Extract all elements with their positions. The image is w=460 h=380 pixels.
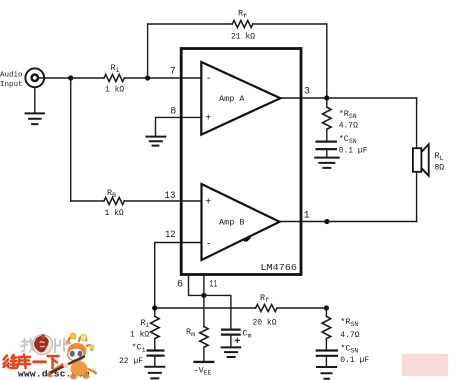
svg-text:8: 8 [170,107,176,118]
ground jack [25,113,45,124]
svg-text:*RSN: *RSN [339,109,357,120]
wire speaker right bottom [416,172,418,222]
svg-text:1 kΩ: 1 kΩ [130,331,149,340]
svg-text:-VEE: -VEE [194,366,212,377]
junction node fb right [324,305,329,310]
ground snubber1 [315,158,339,168]
op-amp U1A triangle [201,62,280,135]
ground Cm [222,347,241,357]
svg-text:13: 13 [165,191,176,202]
wire pin6 [189,276,204,296]
wire audio input line [38,77,201,79]
wire speaker right top [416,98,418,148]
svg-text:4.7Ω: 4.7Ω [339,122,358,131]
wire snubber1 [326,98,328,157]
wire pin1 output [280,221,417,223]
ground Ci [145,367,164,379]
capacitor CSN1 plates [317,142,336,150]
svg-text:22 µF: 22 µF [119,357,143,366]
wire jack stem [34,88,36,112]
resistor RSN2 4.7 [322,316,331,338]
svg-text:+: + [205,198,211,209]
svg-text:Amp A: Amp A [219,94,245,104]
junction node fb left [152,305,157,310]
svg-text:1 kΩ: 1 kΩ [105,86,124,95]
watermark red text xia [48,356,59,368]
capacitor CSN2 plates [317,351,337,356]
svg-text:4.7Ω: 4.7Ω [340,331,359,340]
svg-text:21 kΩ: 21 kΩ [231,33,255,42]
watermark char pian gray [55,339,67,353]
speaker RL [413,144,429,176]
wire top feedback [148,23,327,25]
resistor RB 1k [104,197,124,204]
junction node pin3 [324,95,329,100]
svg-text:*CSN: *CSN [340,344,358,355]
wire input junction down [70,78,72,201]
svg-text:*Ci: *Ci [132,343,146,354]
terminal -VEE bar [195,361,214,363]
svg-text:*RSN: *RSN [340,317,358,328]
svg-text:*CSN: *CSN [339,134,357,145]
svg-text:RL: RL [435,151,444,162]
connector audio input jack [25,68,44,87]
junction node input [68,75,73,80]
svg-text:Ri: Ri [141,318,150,329]
resistor Rf 21k [232,20,253,27]
op-amp U1B triangle [202,184,280,260]
op-amp U1B slope mark [244,237,251,241]
svg-text:7: 7 [170,67,176,78]
junction node mute [201,293,206,298]
watermark red text yi [34,360,46,363]
svg-text:0.1 µF: 0.1 µF [340,356,369,365]
svg-text:Rf: Rf [238,8,247,19]
watermark mascot [49,333,97,379]
wire pin8 to ground [156,117,202,135]
wire pin3 output [280,97,416,99]
svg-text:+: + [205,114,211,125]
watermark char zhao gray [21,339,36,352]
svg-text:1 kΩ: 1 kΩ [105,209,124,218]
wire feedback right drop [326,24,328,98]
svg-text:Rf: Rf [260,293,269,304]
svg-text:RB: RB [107,188,116,199]
IC box LM4766 [181,49,301,275]
resistor Rf2 20k [256,304,277,311]
capacitor Cm plates [222,330,240,335]
svg-text:Amp B: Amp B [219,218,245,228]
wire Ri2 branch [154,308,156,366]
watermark red text wei [4,355,17,368]
wire feedback left drop [147,24,149,78]
svg-text:3: 3 [304,87,310,98]
wire bottom bus [155,307,327,309]
wire pin12 [155,243,202,309]
svg-text:Audio: Audio [0,72,23,80]
svg-text:20 kΩ: 20 kΩ [253,319,277,328]
resistor Rm [200,327,208,348]
junction node pin1 [324,219,329,224]
svg-text:0.1 µF: 0.1 µF [339,146,368,155]
wire Cm branch [204,295,231,346]
svg-text:11: 11 [210,280,218,291]
resistor Ri2 1k [151,316,160,338]
wire pin11 Rm [203,276,205,361]
svg-text:6: 6 [177,280,183,291]
svg-text:-: - [206,74,212,85]
resistor Ri input 1k [104,74,124,81]
resistor RSN1 4.7 [322,107,331,129]
watermark red text ku [17,355,30,369]
svg-text:-: - [206,239,212,250]
svg-text:1: 1 [304,211,310,222]
wire RB line [71,200,202,202]
svg-text:LM4766: LM4766 [261,262,298,273]
svg-text:Input: Input [0,81,23,89]
svg-text:Rm: Rm [186,327,195,338]
wire snubber2 [325,308,327,366]
label Cm plus [235,338,239,342]
watermark pink patch [402,354,448,376]
watermark badge [33,335,53,355]
svg-text:12: 12 [165,230,176,241]
junction node pin7 [145,75,150,80]
svg-text:Ri: Ri [111,63,120,74]
ground snubber2 [317,367,336,379]
capacitor Ci plates [148,351,164,356]
ground pin8 [145,137,166,146]
svg-text:Cm: Cm [243,329,252,340]
svg-text:8Ω: 8Ω [435,164,445,173]
